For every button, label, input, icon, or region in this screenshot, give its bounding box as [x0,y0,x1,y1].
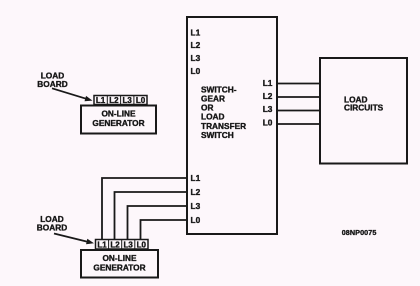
svg-text:L3: L3 [191,201,201,211]
wire L2: switchgear to load circuits [277,96,319,98]
svg-text:L1: L1 [263,78,273,88]
svg-text:ON-LINE: ON-LINE [101,108,136,118]
svg-text:L1: L1 [191,173,201,183]
svg-text:GENERATOR: GENERATOR [93,263,145,273]
generator G2 (bottom) box [81,250,158,278]
svg-text:CIRCUITS: CIRCUITS [344,103,384,113]
callout label: LOAD BOARD (G1) [37,70,67,89]
wire L3: switchgear to load circuits [277,110,319,112]
svg-text:L0: L0 [263,118,273,128]
svg-text:GENERATOR: GENERATOR [92,118,144,128]
svg-text:BOARD: BOARD [37,222,67,232]
label: ON-LINE GENERATOR (G2) [93,253,145,273]
terminal strip (load board) of generator G2 [96,240,149,250]
svg-text:L1: L1 [96,96,106,105]
wire L2: generator G2 to switchgear [115,192,187,239]
label: ON-LINE GENERATOR (G1) [92,108,144,128]
svg-text:L2: L2 [109,96,119,105]
label: SWITCH-GEAR OR LOAD TRANSFER SWITCH [201,84,246,140]
wire L0: switchgear to load circuits [277,123,319,125]
svg-text:L2: L2 [191,187,201,197]
wire L0: generator G2 to switchgear [141,220,187,239]
wire L1: switchgear to load circuits [277,83,319,85]
svg-text:L0: L0 [137,240,147,249]
svg-text:L3: L3 [123,96,133,105]
label: LOAD CIRCUITS [344,95,384,113]
svg-text:L0: L0 [191,215,201,225]
svg-text:L1: L1 [97,240,107,249]
svg-text:L2: L2 [191,40,201,50]
wire L1: generator G2 to switchgear [102,178,186,239]
svg-text:08NP0075: 08NP0075 [342,228,377,237]
arrow from LOAD BOARD label to G2 terminal strip [54,234,95,246]
load circuits box [320,58,407,164]
arrow from LOAD BOARD label to G1 terminal strip [52,88,93,103]
wire L3: generator G2 to switchgear [128,206,187,239]
svg-text:L3: L3 [191,53,201,63]
svg-text:SWITCH: SWITCH [201,130,234,140]
svg-text:L3: L3 [263,104,273,114]
switchgear / load transfer switch box U1 [187,17,277,234]
svg-text:ON-LINE: ON-LINE [102,253,137,263]
terminal strip (load board) of generator G1 [94,96,147,105]
svg-text:L0: L0 [136,96,146,105]
callout label: LOAD BOARD (G2) [37,214,67,233]
generator G1 (top) box [81,106,156,134]
svg-text:BOARD: BOARD [37,79,67,89]
svg-text:L2: L2 [263,91,273,101]
svg-text:L2: L2 [110,240,120,249]
svg-text:L3: L3 [124,240,134,249]
svg-text:L1: L1 [191,27,201,37]
svg-text:L0: L0 [191,66,201,76]
